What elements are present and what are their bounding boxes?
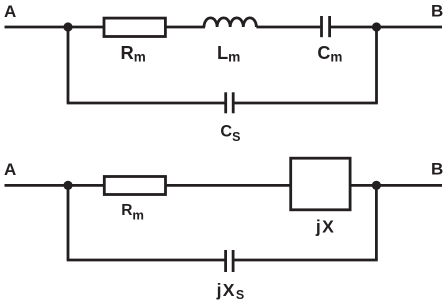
svg-text:B: B: [431, 160, 443, 179]
capacitor Cm plate right: [328, 16, 331, 37]
wire resistor to inductor (top): [165, 26, 205, 29]
capacitor jXs plate right: [232, 250, 235, 272]
wire bottom-right branch (bottom circuit): [233, 259, 378, 262]
capacitor Cm plate left: [320, 16, 323, 37]
capacitor Cs plate right: [232, 92, 235, 113]
wire bottom-right branch (top circuit): [233, 102, 378, 105]
svg-text:A: A: [4, 160, 16, 179]
wire capacitor to B (top): [331, 26, 442, 29]
capacitor jXs plate left: [224, 250, 227, 272]
wire right vertical (top circuit): [375, 27, 378, 103]
svg-text:B: B: [431, 2, 443, 21]
svg-text:Rm: Rm: [121, 42, 146, 64]
resistor R2 body (bottom): [104, 177, 165, 195]
reactance box jX: [291, 158, 350, 210]
resistor R1 body (top): [104, 18, 165, 36]
wire A to resistor (top): [5, 26, 105, 29]
wire right vertical (bottom circuit): [375, 185, 378, 260]
wire A to resistor (bottom): [5, 184, 105, 187]
wire bottom-left branch (bottom circuit): [67, 259, 226, 262]
wire inductor to capacitor (top): [256, 26, 320, 29]
svg-text:Rm: Rm: [121, 202, 144, 222]
junction dot right (bottom circuit): [372, 181, 381, 190]
inductor Lm coil: [204, 18, 256, 27]
svg-text:Lm: Lm: [217, 42, 240, 64]
junction dot left (bottom circuit): [63, 181, 72, 190]
svg-text:A: A: [4, 2, 16, 21]
junction dot right (top circuit): [372, 22, 381, 31]
wire left vertical (top circuit): [67, 27, 70, 103]
svg-text:Cm: Cm: [317, 43, 342, 64]
wire jX box to B: [350, 184, 442, 187]
wire resistor to jX box: [166, 184, 292, 187]
junction dot left (top circuit): [63, 22, 72, 31]
svg-text:jXS: jXS: [216, 280, 245, 302]
svg-text:jX: jX: [315, 216, 335, 236]
svg-text:CS: CS: [220, 123, 240, 144]
capacitor Cs plate left: [224, 92, 227, 113]
wire bottom-left branch (top circuit): [67, 102, 226, 105]
wire left vertical (bottom circuit): [67, 185, 70, 260]
